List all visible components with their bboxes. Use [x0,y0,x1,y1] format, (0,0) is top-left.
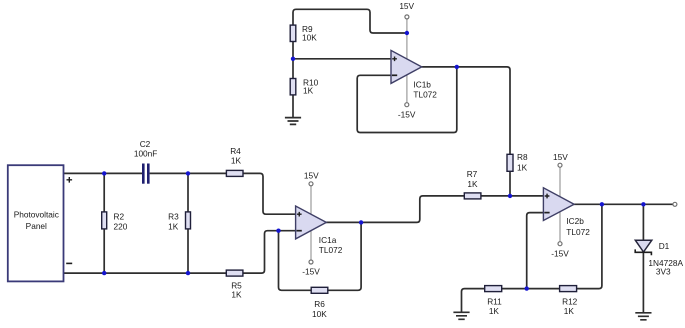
ground at bottom of R11 net [453,312,469,319]
svg-text:15V: 15V [553,152,568,162]
terminal 15V IC1b [405,15,409,19]
node dot top wire R2 [102,171,106,175]
svg-text:-15V: -15V [398,109,416,119]
wire R9 top to 15V net of IC1b [293,9,407,33]
output terminal [673,202,677,206]
svg-text:1K: 1K [467,179,478,189]
resistor R5 [226,270,243,299]
node dot D1 branch [641,202,645,206]
pin line 15V/-15V IC1b [406,19,408,103]
svg-text:IC1b: IC1b [413,80,431,90]
wire R3 branch [187,173,189,273]
resistor R4 [226,146,243,176]
svg-text:1K: 1K [168,221,179,231]
terminal -15V IC1a [309,260,313,264]
wire R10 bottom to ground [292,95,294,118]
wire IC1a output to IC2b +in through R7 [326,196,544,223]
svg-text:1K: 1K [303,86,314,96]
svg-text:3V3: 3V3 [656,266,671,276]
svg-text:1K: 1K [231,289,242,299]
terminal -15V IC1b [405,103,409,107]
svg-text:R3: R3 [168,211,179,221]
wire R2 branch [103,173,105,273]
terminal 15V IC2b [558,163,562,167]
node dot divider midpoint [291,57,295,61]
svg-text:10K: 10K [302,32,317,42]
svg-text:D1: D1 [659,241,670,251]
svg-text:1K: 1K [231,155,242,165]
svg-text:Photovoltaic: Photovoltaic [14,209,59,219]
svg-text:10K: 10K [312,309,327,319]
svg-text:100nF: 100nF [134,148,158,158]
wire IC2b output to terminal [574,203,673,205]
svg-text:R6: R6 [314,299,325,309]
panel + terminal sign [67,177,73,183]
pin line 15V/-15V IC2b [559,167,561,241]
node dot IC1b output [455,65,459,69]
op-amp IC1a [296,206,343,255]
wire top net from panel + to C2 [63,172,142,174]
ground under R10 [285,118,301,125]
svg-text:TL072: TL072 [413,90,437,100]
svg-text:IC2b: IC2b [566,216,584,226]
svg-text:220: 220 [114,221,128,231]
op-amp IC1b [391,50,437,99]
node dot IC1a -in [276,229,280,233]
wire IC2b output feedback via R12 R11 [462,204,602,312]
svg-text:1K: 1K [517,163,528,173]
resistor R10 [290,77,318,95]
svg-text:R7: R7 [467,169,478,179]
svg-text:Panel: Panel [26,221,47,231]
resistor R8 [507,152,528,172]
node dot IC2b -in bottom [525,286,529,290]
ground under D1 [635,313,651,320]
node dot IC1a output [359,220,363,224]
resistor R11 [485,286,502,316]
wire D1 anode [642,204,644,240]
wire IC1b feedback loop [357,67,457,133]
zener diode D1 [635,240,683,276]
wire R6 feedback loop IC1a [279,222,362,290]
node dot R7 R8 junction [508,194,512,198]
wire C2 to R4 to IC1a +in [150,173,296,214]
node dot output feedback [600,202,604,206]
resistor R9 [290,24,317,42]
svg-text:TL072: TL072 [319,245,343,255]
wire R9 bottom to R10 top [292,41,294,79]
svg-text:1K: 1K [489,306,500,316]
node dot bottom wire R2 [102,271,106,275]
wire IC2b -in branch [527,213,544,289]
wire IC1b output to R8 top [422,67,510,155]
panel - terminal sign [66,262,72,264]
resistor R12 [560,286,578,316]
resistor R3 [168,211,190,231]
resistor R7 [464,169,481,199]
terminal 15V IC1a [309,182,313,186]
svg-text:1K: 1K [564,306,575,316]
svg-text:R8: R8 [517,152,528,162]
resistor R2 [102,211,128,231]
wire bottom net from panel - through R5 to IC1a -in [63,231,295,273]
svg-text:15V: 15V [304,170,319,180]
wire divider midpoint to IC1b +in [293,58,391,60]
op-amp IC2b [543,188,590,237]
svg-text:R2: R2 [114,211,125,221]
svg-text:-15V: -15V [302,267,320,277]
photovoltaic panel box [8,165,64,281]
resistor R6 [311,287,328,319]
capacitor C2 [134,139,158,184]
terminal -15V IC2b [558,242,562,246]
node dot bottom wire R3 [186,271,190,275]
svg-text:15V: 15V [399,1,414,11]
node dot top wire R3 [186,171,190,175]
pin line 15V/-15V IC1a [310,186,312,260]
svg-text:-15V: -15V [551,248,569,258]
wire D1 cathode to ground [642,252,644,312]
node dot 15V net IC1b [405,31,409,35]
wire R8 bottom to R7 net [509,171,511,196]
svg-text:TL072: TL072 [566,227,590,237]
svg-text:IC1a: IC1a [319,235,337,245]
